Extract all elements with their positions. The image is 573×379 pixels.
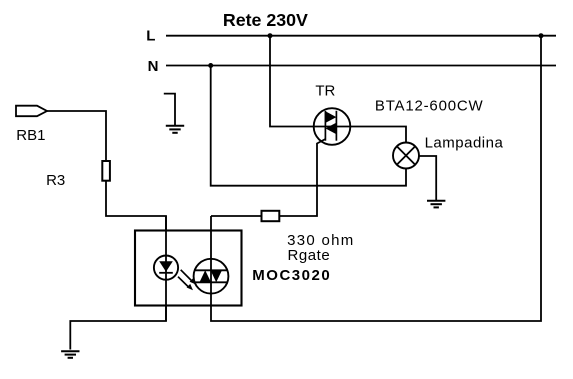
svg-text:Rete 230V: Rete 230V bbox=[223, 10, 308, 30]
ground floating stub near N bbox=[164, 94, 175, 125]
connector RB1 bbox=[16, 106, 47, 117]
wire phototriac vertical down right and up to L bbox=[211, 36, 541, 321]
wire from RB1 to resistor R3 bbox=[47, 111, 106, 161]
ground bottom left bbox=[61, 350, 79, 352]
wire N line bbox=[166, 65, 556, 67]
wire from triac TR right terminal to lamp top bbox=[350, 127, 406, 143]
wire from N down then right to lamp bottom bbox=[211, 66, 406, 186]
svg-text:N: N bbox=[148, 58, 159, 75]
LED inside MOC3020 bbox=[154, 256, 178, 280]
svg-text:R3: R3 bbox=[46, 172, 65, 189]
wire from L down to triac TR left terminal bbox=[270, 36, 314, 127]
node junction dot on L at x=541 bbox=[539, 33, 544, 38]
wire triac TR gate down to 330 ohm resistor bbox=[280, 139, 325, 216]
svg-text:RB1: RB1 bbox=[16, 127, 45, 144]
node junction dot on N at x=211 bbox=[208, 63, 213, 68]
svg-text:MOC3020: MOC3020 bbox=[252, 267, 331, 284]
wire lamp right to ground bbox=[419, 156, 436, 200]
light arrows from LED to phototriac bbox=[178, 270, 196, 291]
svg-text:BTA12-600CW: BTA12-600CW bbox=[375, 97, 484, 114]
resistor R3 bbox=[102, 161, 110, 181]
svg-text:TR: TR bbox=[315, 82, 335, 99]
wire LED cathode down left to ground bbox=[70, 306, 166, 350]
ground at lamp bbox=[427, 200, 445, 202]
wire from Rgate resistor to optocoupler triac top bbox=[211, 215, 262, 217]
phototriac inside MOC3020 bbox=[194, 259, 229, 294]
wire LED vertical through box bbox=[165, 216, 167, 321]
wire from R3 to optocoupler LED anode bbox=[106, 181, 166, 231]
triac TR bbox=[314, 108, 351, 145]
node junction dot on L at x=270 bbox=[268, 33, 273, 38]
optocoupler MOC3020 box bbox=[135, 231, 242, 306]
wire L line bbox=[166, 35, 556, 37]
svg-text:Rgate: Rgate bbox=[288, 247, 331, 264]
svg-text:L: L bbox=[146, 28, 155, 45]
svg-text:Lampadina: Lampadina bbox=[425, 135, 504, 152]
resistor Rgate 330 ohm bbox=[262, 211, 280, 221]
wire through triac TR at y=126.5 bbox=[314, 126, 350, 128]
lamp Lampadina bbox=[393, 143, 419, 169]
